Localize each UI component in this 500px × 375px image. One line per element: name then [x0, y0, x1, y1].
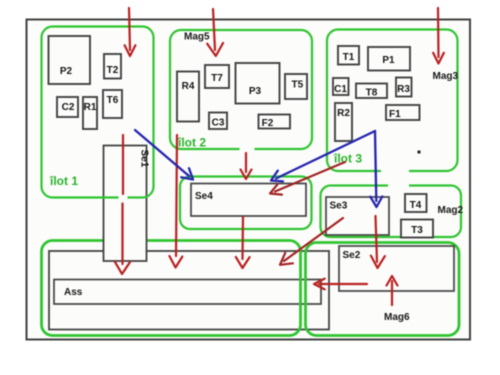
machine P3	[236, 63, 280, 104]
svg-text:Se1: Se1	[139, 150, 150, 168]
outer frame	[27, 20, 471, 340]
svg-text:T8: T8	[366, 88, 378, 99]
svg-text:R1: R1	[84, 102, 97, 113]
svg-text:Mag2: Mag2	[438, 205, 464, 216]
svg-text:Mag5: Mag5	[184, 32, 210, 43]
svg-text:T2: T2	[107, 65, 119, 76]
flow arrow ilot1 to Ass	[115, 135, 130, 274]
gap in Mag5 bottom edge	[240, 146, 255, 152]
zone ilot 1 (green)	[42, 27, 154, 198]
svg-text:Ass: Ass	[64, 287, 83, 298]
machine T1	[338, 46, 359, 65]
machine T2	[104, 54, 121, 79]
zone Mag2 (green)	[321, 186, 462, 238]
machine F2	[259, 115, 291, 129]
machine R4	[177, 72, 199, 122]
gap in ilot1 bottom edge	[119, 195, 128, 201]
svg-text:Se2: Se2	[343, 250, 361, 261]
machine T8	[356, 84, 387, 99]
flow arrow Mag6 up into Se2	[387, 276, 398, 305]
svg-text:îlot 3: îlot 3	[333, 152, 362, 166]
svg-text:T4: T4	[410, 200, 422, 211]
svg-text:R3: R3	[397, 84, 410, 95]
svg-text:C2: C2	[62, 102, 75, 113]
svg-text:R4: R4	[182, 81, 195, 92]
zone Mag5 / ilot 2 (green)	[170, 30, 312, 149]
stock Se3	[326, 197, 389, 235]
zone Ass (green)	[42, 241, 301, 336]
machine R1	[83, 97, 97, 129]
machine P2	[49, 36, 91, 84]
svg-text:Mag6: Mag6	[384, 312, 410, 323]
svg-text:îlot 1: îlot 1	[49, 174, 78, 188]
zone Mag6 (green)	[306, 243, 460, 336]
machine T3	[401, 220, 433, 238]
flow arrow into Mag3	[433, 8, 444, 64]
flow arrow Se3 down to Se2	[371, 216, 385, 268]
gap in Mag2 top edge	[388, 183, 409, 189]
gap in ilot3 bottom edge	[381, 168, 409, 174]
svg-text:R2: R2	[337, 108, 350, 119]
machine F1	[386, 105, 420, 120]
svg-text:T3: T3	[411, 225, 423, 236]
zone ilot 3 / Mag3 (green)	[327, 30, 458, 172]
machine C2	[57, 97, 78, 117]
machine R3	[396, 78, 412, 97]
small dot	[418, 151, 421, 154]
flow arrow Se3 to Ass (diagonal)	[280, 218, 343, 265]
machine T4	[405, 194, 427, 212]
svg-text:T6: T6	[107, 95, 119, 106]
flow arrow into ilot 1	[125, 8, 136, 56]
flow arrow into Mag5	[207, 9, 223, 56]
svg-text:C1: C1	[334, 84, 347, 95]
stock Se1	[104, 146, 147, 262]
transfer arrow ilot3 to Se3	[370, 131, 382, 207]
svg-text:F1: F1	[389, 109, 401, 120]
stock Se2	[339, 246, 454, 291]
svg-text:T7: T7	[211, 73, 223, 84]
zone Se4 (green)	[180, 177, 312, 230]
machine C3	[209, 113, 227, 130]
svg-text:îlot 2: îlot 2	[177, 136, 206, 150]
svg-text:P3: P3	[249, 86, 262, 97]
flow arrow ilot3 to Se4 (diagonal)	[270, 162, 345, 195]
svg-text:P2: P2	[60, 66, 73, 77]
machine T7	[205, 65, 229, 88]
svg-text:T1: T1	[343, 52, 355, 63]
svg-text:C3: C3	[212, 118, 225, 129]
transfer arrow Se1 to Se4	[135, 130, 193, 180]
svg-text:Se3: Se3	[330, 201, 348, 212]
svg-text:Se4: Se4	[195, 191, 213, 202]
flow arrow Se2 to Ass (horizontal)	[314, 279, 367, 290]
machine C1	[333, 78, 349, 95]
machine R2	[335, 103, 352, 141]
flow arrow ilot2 to Ass	[169, 135, 182, 268]
stock Se4	[191, 184, 306, 217]
assembly line Ass	[54, 280, 321, 305]
flow arrow Se4 to Ass	[236, 217, 250, 268]
svg-text:P1: P1	[382, 55, 395, 66]
flow arrow Mag5 to Se4	[241, 153, 252, 179]
svg-text:F2: F2	[262, 118, 274, 129]
machine T5	[285, 74, 307, 99]
storage hall black container	[49, 251, 329, 330]
svg-text:Mag3: Mag3	[433, 71, 459, 82]
machine T6	[103, 90, 122, 118]
transfer arrow ilot3 to Se4	[271, 131, 375, 181]
svg-text:T5: T5	[292, 80, 304, 91]
machine P1	[368, 47, 410, 71]
